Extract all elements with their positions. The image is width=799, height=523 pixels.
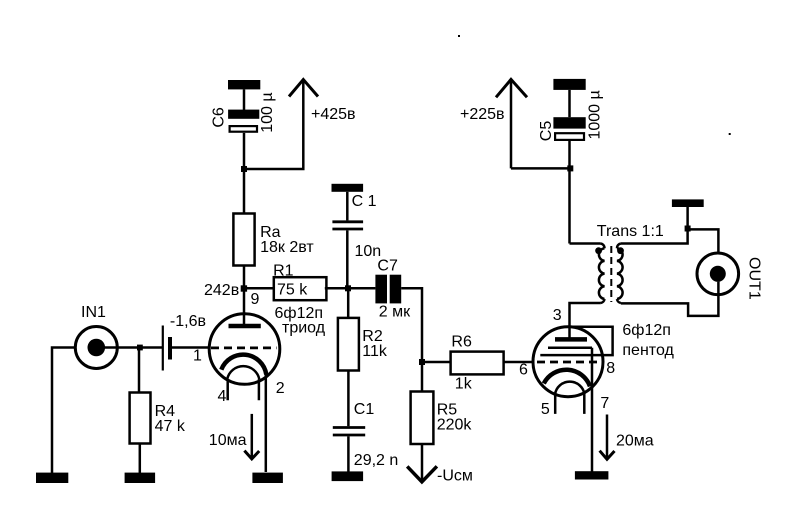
- resistor R4: [130, 393, 186, 444]
- node 242в junction: [241, 285, 247, 291]
- pentode tube 6ф12п: [533, 322, 674, 397]
- wire battery to triode grid pin 1: [172, 346, 210, 349]
- wire +225в to C5 node: [511, 167, 570, 170]
- wire IN1 to battery: [96, 346, 162, 349]
- svg-text:C 1: C 1: [352, 193, 377, 210]
- wire C5 down to transformer: [568, 141, 571, 244]
- current arrow 20ма: [600, 415, 654, 460]
- svg-text:2: 2: [276, 380, 285, 397]
- wire ground to C5: [568, 90, 571, 117]
- svg-text:6ф12п: 6ф12п: [622, 322, 671, 339]
- capacitor C5 1000µ: [538, 90, 604, 141]
- node junction at R4 tap: [137, 345, 143, 351]
- svg-text:10ма: 10ма: [209, 432, 247, 449]
- svg-text:75 k: 75 k: [277, 282, 308, 299]
- svg-text:7: 7: [600, 395, 609, 412]
- battery -1,6в: [163, 313, 206, 371]
- triode cathode arc: [221, 355, 266, 375]
- svg-text:+225в: +225в: [460, 106, 505, 123]
- pentode heater arc: [555, 382, 585, 395]
- node junction secondary/out: [685, 226, 691, 232]
- wire ground to C6: [243, 89, 246, 110]
- pentode screen grid: [548, 346, 592, 349]
- svg-text:C5: C5: [538, 121, 555, 142]
- wire secondary bottom to OUT1: [621, 282, 719, 316]
- primary winding: [599, 244, 605, 304]
- pentode heater pins: [555, 394, 584, 414]
- phase dot secondary: [617, 247, 624, 254]
- supply +225в arrow: [460, 79, 527, 168]
- supply +425в arrow: [244, 80, 356, 170]
- core (dashed): [610, 246, 612, 302]
- node junction R5/R6: [419, 359, 425, 365]
- triode heater arc: [227, 366, 259, 379]
- node junction +425 tap: [241, 166, 247, 172]
- svg-text:OUT1: OUT1: [746, 257, 763, 300]
- svg-text:29,2 n: 29,2 n: [354, 452, 398, 469]
- wire R1 to node: [325, 287, 376, 290]
- ground (C1 top): [332, 184, 364, 192]
- svg-text:5: 5: [541, 401, 550, 418]
- svg-text:пентод: пентод: [622, 342, 674, 359]
- wire primary bottom to pentode plate pin 3: [570, 303, 601, 339]
- pentode anode plate: [555, 337, 587, 342]
- wire IN1 left to ground: [52, 348, 75, 474]
- triode tube 6ф12п: [209, 305, 326, 384]
- transformer Trans 1:1: [595, 223, 664, 303]
- capacitor C1 10n: [332, 193, 381, 260]
- svg-text:6: 6: [519, 362, 528, 379]
- wire node to OUT1: [688, 229, 719, 253]
- wire C7 to R6 node: [401, 288, 422, 362]
- wire node down to R5: [421, 362, 424, 392]
- svg-text:1: 1: [193, 348, 202, 365]
- speck artifact 2: [729, 133, 731, 135]
- ground (C1 bottom): [332, 471, 364, 481]
- wire R5 to -Uсм: [421, 444, 424, 480]
- connector IN1: [75, 304, 117, 369]
- ground (C6 top): [228, 80, 260, 89]
- svg-text:20ма: 20ма: [616, 433, 654, 450]
- svg-text:100 µ: 100 µ: [259, 92, 276, 132]
- triode anode plate: [229, 324, 261, 329]
- svg-text:-Uсм: -Uсм: [437, 468, 473, 485]
- wire Ra to triode plate pin 9: [243, 266, 246, 327]
- svg-text:8: 8: [606, 360, 615, 377]
- resistor R5 220k: [411, 392, 473, 445]
- svg-text:R1: R1: [273, 263, 294, 280]
- ground (triode cathode): [252, 473, 283, 483]
- capacitor C1 29,2n: [333, 401, 398, 469]
- phase dot primary: [595, 247, 602, 254]
- wire C1 to ground: [347, 436, 350, 472]
- svg-text:9: 9: [251, 291, 260, 308]
- wire R6 to pentode grid pin 6: [504, 361, 533, 364]
- wire cathode pin 2 to ground: [265, 371, 268, 472]
- svg-text:4: 4: [218, 388, 227, 405]
- resistor R6 1k: [451, 333, 504, 392]
- svg-text:C7: C7: [377, 257, 398, 274]
- svg-text:R6: R6: [451, 333, 472, 350]
- wire junction down to R4: [138, 348, 141, 393]
- wire R4 to ground: [139, 444, 142, 474]
- pentode control grid (dashed): [537, 361, 600, 364]
- current arrow 10ма: [209, 414, 259, 459]
- svg-text:Trans 1:1: Trans 1:1: [597, 223, 664, 240]
- svg-text:11k: 11k: [362, 343, 388, 360]
- secondary winding: [617, 244, 623, 304]
- svg-text:триод: триод: [282, 320, 326, 337]
- node junction C1/C7: [345, 285, 351, 291]
- svg-text:C6: C6: [211, 107, 228, 128]
- pentode cathode arc: [544, 370, 590, 387]
- svg-text:47 k: 47 k: [155, 418, 186, 435]
- ground (pentode cathode): [575, 471, 609, 479]
- svg-text:IN1: IN1: [81, 304, 106, 321]
- svg-text:2 мк: 2 мк: [379, 303, 411, 320]
- svg-text:C1: C1: [354, 401, 375, 418]
- ground (C5 top): [553, 79, 585, 90]
- resistor R1 75k: [273, 263, 326, 301]
- supply -Uсм arrow: [407, 466, 473, 484]
- wire screen/cathode pin 7 to ground: [591, 348, 594, 472]
- wire C6 down to Ra: [243, 133, 246, 214]
- wire secondary top to out node: [621, 229, 688, 243]
- svg-text:18к 2вт: 18к 2вт: [260, 239, 314, 256]
- svg-text:242в: 242в: [204, 282, 239, 299]
- wire node to R1: [244, 287, 275, 290]
- wire ground to C1: [346, 192, 349, 221]
- pentode suppressor grid tied to pin 8: [540, 327, 612, 355]
- capacitor C7 2мк: [375, 257, 411, 320]
- resistor Ra 18к 2вт: [233, 214, 314, 266]
- svg-text:-1,6в: -1,6в: [170, 313, 206, 330]
- ground (IN1): [36, 473, 68, 483]
- svg-text:220k: 220k: [437, 417, 473, 434]
- wire to primary top: [570, 242, 601, 245]
- svg-text:1k: 1k: [455, 375, 473, 392]
- svg-text:1000 µ: 1000 µ: [586, 90, 603, 139]
- connector OUT1: [697, 253, 763, 300]
- wire node down to R2: [347, 288, 350, 318]
- capacitor C6 100µ: [211, 92, 277, 132]
- node junction C5: [567, 165, 573, 171]
- triode heater pins: [228, 379, 259, 400]
- svg-text:3: 3: [553, 307, 562, 324]
- svg-text:+425в: +425в: [311, 106, 356, 123]
- wire node to R6: [422, 361, 451, 364]
- speck artifact 1: [458, 35, 460, 37]
- wire R2 down to C1: [347, 371, 350, 427]
- triode grid (dashed): [211, 346, 277, 349]
- resistor R2 11k: [338, 318, 388, 371]
- wire C1 to node: [346, 230, 349, 288]
- ground (R4): [125, 473, 156, 483]
- ground (secondary): [672, 199, 704, 228]
